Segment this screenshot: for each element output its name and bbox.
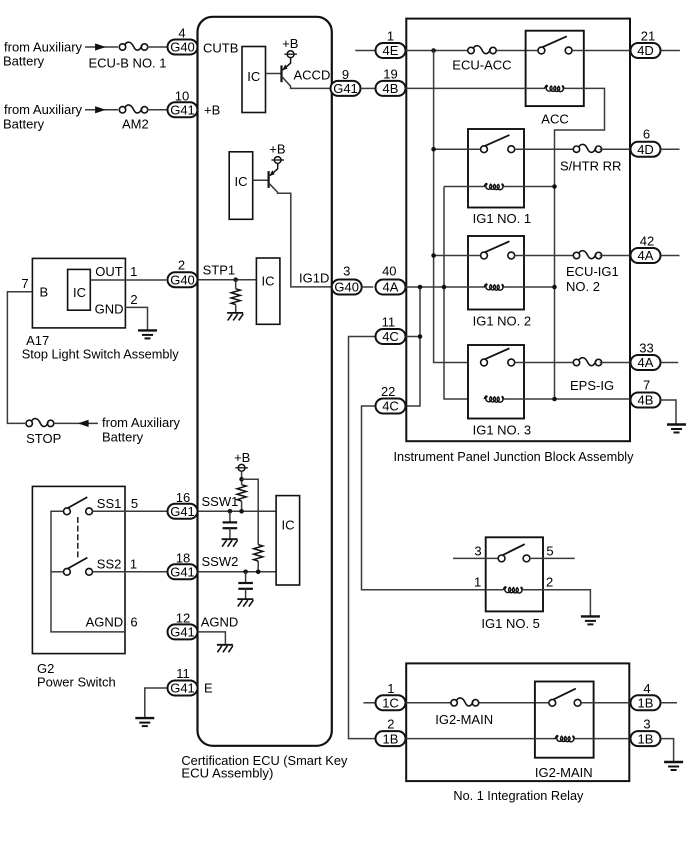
wire — [235, 280, 237, 289]
svg-text:4: 4 — [178, 26, 185, 41]
fuse ECU-IG1 NO. 2 — [573, 251, 601, 261]
svg-text:ECU-IG1: ECU-IG1 — [566, 264, 619, 279]
svg-text:NO. 2: NO. 2 — [566, 279, 600, 294]
svg-text:1B: 1B — [383, 731, 399, 746]
svg-text:2: 2 — [178, 258, 185, 273]
fuse S/HTR RR — [573, 144, 601, 154]
net from Auxiliary Battery (AM2 feed) — [3, 102, 83, 131]
arrow — [95, 43, 106, 50]
svg-text:Power Switch: Power Switch — [37, 674, 116, 689]
fuse STOP — [26, 418, 54, 428]
node — [431, 253, 436, 258]
capacitor C1 — [223, 522, 238, 528]
svg-text:4A: 4A — [638, 355, 654, 370]
node — [418, 285, 423, 290]
svg-text:IG1 NO. 1: IG1 NO. 1 — [473, 211, 532, 226]
svg-text:G41: G41 — [170, 565, 195, 580]
IC U1 — [242, 47, 266, 113]
arrow — [95, 106, 106, 113]
svg-text:ECU Assembly): ECU Assembly) — [181, 765, 273, 780]
wire ACC coil to coil bus — [555, 88, 605, 399]
node — [552, 397, 557, 402]
svg-text:10: 10 — [175, 88, 189, 103]
ground IG1 NO. 5 — [581, 616, 600, 624]
svg-text:G40: G40 — [170, 40, 195, 55]
svg-text:16: 16 — [176, 490, 190, 505]
svg-text:G40: G40 — [170, 272, 195, 287]
wire SS2 to G41 — [93, 571, 168, 573]
relay IG1 NO. 3 contact — [481, 348, 515, 366]
node — [256, 570, 261, 575]
node pull-up branch — [239, 477, 244, 482]
wire — [361, 87, 376, 89]
wire coil left — [486, 589, 504, 591]
svg-text:IG1 NO. 5: IG1 NO. 5 — [481, 616, 540, 631]
svg-text:5: 5 — [131, 496, 138, 511]
svg-text:AM2: AM2 — [122, 117, 149, 132]
wire stub pin 5 — [530, 557, 575, 559]
wire E pin to ground — [145, 688, 168, 718]
wire 1C to relay — [406, 702, 550, 704]
node — [552, 184, 557, 189]
ground GND pin — [138, 330, 157, 338]
node — [239, 509, 244, 514]
transistor Q2 — [269, 163, 278, 188]
svg-text:4D: 4D — [637, 142, 654, 157]
svg-text:4E: 4E — [383, 43, 399, 58]
svg-text:E: E — [204, 680, 213, 695]
svg-text:ACCD: ACCD — [294, 67, 331, 82]
svg-text:G41: G41 — [170, 504, 195, 519]
relay IG2-MAIN contact — [549, 689, 581, 707]
wire collector Q2 to IG1D — [269, 183, 331, 287]
wire GND — [125, 307, 147, 330]
svg-text:+B: +B — [282, 36, 298, 51]
wire — [235, 305, 237, 313]
svg-text:IG1 NO. 2: IG1 NO. 2 — [473, 313, 532, 328]
wire — [434, 148, 481, 150]
wire — [504, 186, 555, 188]
svg-text:EPS-IG: EPS-IG — [570, 378, 614, 393]
svg-text:4D: 4D — [637, 43, 654, 58]
wire 4B-19 to ACC coil — [406, 87, 546, 89]
node — [442, 285, 447, 290]
wire ACCD to G41-9 — [330, 87, 332, 89]
power +B terminal Q2 — [271, 157, 284, 164]
svg-text:AGND: AGND — [201, 615, 239, 630]
wire stub — [661, 702, 678, 704]
IC U2 — [229, 152, 253, 220]
svg-text:IG1 NO. 3: IG1 NO. 3 — [473, 423, 532, 438]
wire stub — [661, 50, 680, 52]
wire — [504, 398, 631, 400]
wire — [54, 422, 98, 424]
wire B pin 7 to STOP fuse — [7, 292, 32, 424]
svg-text:IC: IC — [262, 273, 275, 288]
relay IG2-MAIN coil — [555, 736, 575, 742]
relay IG1 NO. 1 coil — [484, 184, 504, 190]
svg-text:+B: +B — [234, 450, 250, 465]
ground (body) AGND — [217, 645, 233, 653]
wire — [581, 702, 631, 704]
svg-text:4A: 4A — [383, 280, 399, 295]
svg-text:SSW1: SSW1 — [202, 494, 239, 509]
svg-text:No. 1 Integration Relay: No. 1 Integration Relay — [453, 788, 583, 803]
wire 4B-7 to ground — [661, 400, 677, 424]
svg-text:STP1: STP1 — [203, 262, 236, 277]
capacitor C2 — [238, 583, 253, 589]
relay IG1 NO. 3 box — [468, 345, 524, 419]
svg-text:Battery: Battery — [3, 53, 45, 68]
wire SS2 stub — [51, 571, 64, 573]
power +B terminal Q1 — [284, 51, 297, 58]
svg-text:IC: IC — [282, 518, 295, 533]
svg-text:IC: IC — [73, 285, 86, 300]
svg-text:4B: 4B — [638, 393, 654, 408]
node STP1 junction — [233, 277, 238, 282]
Stop Light Switch Assembly box A17 — [32, 258, 125, 328]
transistor Q1 — [282, 58, 291, 83]
wire base Q2 — [253, 179, 269, 181]
relay IG1 NO. 2 coil — [484, 284, 504, 290]
wire STP1 — [198, 279, 256, 281]
wire SSW1 — [198, 510, 276, 512]
wire ACC contact out — [572, 50, 631, 52]
label Certification ECU — [181, 753, 347, 780]
svg-text:G41: G41 — [170, 625, 195, 640]
svg-text:ACC: ACC — [541, 111, 568, 126]
svg-text:33: 33 — [639, 341, 653, 356]
svg-text:12: 12 — [176, 610, 190, 625]
svg-text:Instrument Panel Junction Bloc: Instrument Panel Junction Block Assembly — [394, 449, 634, 464]
resistor R3 (SSW2 pull-up) — [254, 545, 263, 561]
relay IG1 NO. 1 box — [468, 129, 524, 208]
IC U4 — [276, 496, 300, 585]
svg-text:GND: GND — [95, 302, 124, 317]
svg-text:IG2-MAIN: IG2-MAIN — [435, 712, 493, 727]
svg-text:3: 3 — [474, 543, 481, 558]
wire OUT to G40 — [90, 279, 166, 281]
wire — [147, 46, 168, 48]
svg-text:1B: 1B — [638, 696, 654, 711]
wire stub pin 3 — [453, 557, 498, 559]
wire contact to fuse — [515, 255, 574, 257]
wire — [241, 501, 243, 511]
resistor R2 (SSW1 pull-up) — [237, 485, 246, 501]
svg-text:G41: G41 — [170, 103, 195, 118]
svg-text:G41: G41 — [333, 81, 358, 96]
ground (body) C2 — [237, 599, 253, 607]
svg-text:2: 2 — [546, 574, 553, 589]
switch SS2 — [64, 558, 93, 576]
ground 1B-3 — [664, 762, 683, 770]
wire bus C (4C feed) — [406, 287, 421, 406]
svg-text:4A: 4A — [638, 248, 654, 263]
wire — [434, 255, 481, 257]
net from Auxiliary Battery (ECU-B NO. 1 feed) — [3, 39, 83, 68]
svg-text:S/HTR RR: S/HTR RR — [560, 159, 621, 174]
wire — [600, 148, 631, 150]
node — [243, 570, 248, 575]
net label from Auxiliary Battery — [102, 415, 181, 444]
wire branch to R3 — [242, 479, 259, 544]
svg-text:4: 4 — [643, 681, 650, 696]
svg-text:6: 6 — [643, 127, 650, 142]
wire — [515, 362, 574, 364]
relay ACC contact — [538, 36, 572, 54]
svg-text:4C: 4C — [382, 399, 399, 414]
wire 4C-11 branch — [349, 337, 376, 739]
svg-text:1: 1 — [130, 264, 137, 279]
switch SS1 — [64, 497, 93, 515]
wire SS1 to G41 — [93, 510, 168, 512]
node — [418, 334, 423, 339]
svg-text:1: 1 — [474, 574, 481, 589]
wire — [600, 255, 631, 257]
wire stub — [661, 148, 680, 150]
svg-text:11: 11 — [382, 315, 396, 330]
wire base Q1 — [266, 73, 282, 75]
wire — [85, 109, 118, 111]
svg-text:18: 18 — [176, 550, 190, 565]
svg-text:1: 1 — [387, 681, 394, 696]
svg-text:+B: +B — [204, 102, 220, 117]
svg-text:2: 2 — [387, 717, 394, 732]
relay IG1 NO. 1 contact — [481, 135, 515, 153]
svg-text:IG2-MAIN: IG2-MAIN — [535, 765, 593, 780]
fuse EPS-IG — [573, 358, 601, 368]
ground (body) R1 — [227, 313, 243, 321]
fuse ECU-B NO. 1 — [119, 42, 147, 52]
svg-text:ECU-ACC: ECU-ACC — [452, 57, 511, 72]
wire 4E to ACC relay — [406, 50, 542, 52]
wire SSW2 — [198, 571, 276, 573]
relay IG1 NO. 5 coil — [503, 587, 523, 593]
wire IG1D coil 2 — [406, 286, 486, 288]
svg-text:Battery: Battery — [3, 116, 45, 131]
svg-text:IG1D: IG1D — [299, 271, 329, 286]
wire — [257, 561, 259, 572]
ECU box Certification ECU — [198, 17, 332, 746]
Instrument Panel Junction Block Assembly box — [406, 19, 630, 442]
relay ACC coil — [545, 85, 565, 91]
svg-text:AGND: AGND — [86, 615, 124, 630]
relay ACC box — [526, 31, 584, 106]
ground 4B-7 — [667, 425, 686, 433]
node bus A top — [431, 48, 436, 53]
svg-text:CUTB: CUTB — [203, 40, 238, 55]
wire — [406, 336, 421, 338]
wire — [245, 572, 247, 583]
svg-text:4C: 4C — [382, 329, 399, 344]
arrow (from Auxiliary Battery) — [78, 420, 89, 427]
svg-text:IC: IC — [247, 69, 260, 84]
wire bus A (switch feed) — [434, 51, 468, 363]
svg-text:1B: 1B — [638, 731, 654, 746]
IC U3 — [256, 258, 280, 324]
relay IG1 NO. 3 coil — [484, 396, 504, 402]
wire — [600, 362, 631, 364]
wire stub — [661, 255, 680, 257]
Power Switch box G2 — [32, 486, 125, 653]
svg-text:+B: +B — [269, 141, 285, 156]
fuse AM2 — [119, 105, 147, 115]
svg-text:21: 21 — [641, 29, 655, 44]
svg-text:5: 5 — [546, 543, 553, 558]
svg-text:2: 2 — [130, 292, 137, 307]
wire bus B (coil feed) — [444, 187, 468, 400]
svg-text:from Auxiliary: from Auxiliary — [4, 102, 83, 117]
wire 4C-22 branch — [362, 406, 486, 590]
ground (body) C1 — [222, 539, 238, 547]
svg-text:7: 7 — [21, 276, 28, 291]
wire collector Q1 to ACCD — [282, 77, 331, 89]
wire — [147, 109, 168, 111]
svg-text:ECU-B NO. 1: ECU-B NO. 1 — [89, 56, 167, 71]
svg-text:G40: G40 — [334, 280, 359, 295]
node — [228, 509, 233, 514]
ground E pin — [135, 718, 154, 726]
fuse IG2-MAIN — [451, 698, 479, 708]
IC U5 (stop light switch) — [68, 269, 91, 310]
svg-text:40: 40 — [382, 263, 396, 278]
svg-text:1C: 1C — [382, 696, 399, 711]
wire — [245, 589, 247, 599]
svg-text:from Auxiliary: from Auxiliary — [4, 39, 83, 54]
svg-text:4B: 4B — [383, 81, 399, 96]
relay IG1 NO. 2 box — [468, 236, 524, 310]
wire — [241, 471, 243, 485]
svg-text:G41: G41 — [170, 681, 195, 696]
svg-text:42: 42 — [640, 234, 654, 249]
relay IG1 NO. 2 contact — [481, 241, 515, 259]
power +B terminal pull-up — [235, 464, 248, 471]
svg-text:OUT: OUT — [95, 264, 123, 279]
wire pin 2 to ground — [523, 590, 591, 616]
wire — [229, 528, 231, 539]
relay IG1 NO. 5 contact — [498, 544, 530, 562]
svg-text:IC: IC — [235, 174, 248, 189]
fuse ECU-ACC — [468, 46, 496, 56]
svg-text:B: B — [40, 284, 49, 299]
node — [431, 147, 436, 152]
svg-text:3: 3 — [643, 717, 650, 732]
wire — [229, 511, 231, 522]
wire AGND to body ground — [198, 632, 225, 645]
svg-text:SS2: SS2 — [97, 556, 122, 571]
svg-text:SSW2: SSW2 — [202, 554, 239, 569]
wire coil feed — [406, 738, 557, 740]
wire — [362, 286, 374, 288]
svg-text:3: 3 — [343, 263, 350, 278]
wire — [574, 738, 631, 740]
relay IG1 NO. 5 box — [486, 537, 543, 611]
wire stub 4E — [355, 50, 375, 52]
svg-text:19: 19 — [383, 66, 397, 81]
wire switch common — [51, 511, 125, 632]
wire — [504, 286, 555, 288]
wire coil 1 — [444, 186, 485, 188]
svg-text:STOP: STOP — [26, 431, 61, 446]
No. 1 Integration Relay box — [406, 663, 629, 781]
svg-text:SS1: SS1 — [97, 496, 122, 511]
mechanical link (dashed) — [77, 517, 79, 560]
svg-text:11: 11 — [176, 666, 190, 681]
svg-text:from Auxiliary: from Auxiliary — [102, 415, 181, 430]
svg-text:7: 7 — [643, 378, 650, 393]
node — [552, 285, 557, 290]
svg-text:1: 1 — [387, 29, 394, 44]
svg-text:Stop Light Switch Assembly: Stop Light Switch Assembly — [22, 347, 179, 362]
svg-text:9: 9 — [342, 67, 349, 82]
wire stub — [661, 362, 679, 364]
wire — [85, 46, 118, 48]
svg-text:22: 22 — [381, 384, 395, 399]
relay IG2-MAIN box — [535, 682, 594, 758]
svg-text:Battery: Battery — [102, 429, 144, 444]
svg-text:1: 1 — [130, 556, 137, 571]
wire contact to fuse — [515, 148, 574, 150]
wire stub 1C — [363, 702, 375, 704]
svg-text:6: 6 — [130, 615, 137, 630]
wire 1B-3 to ground — [661, 739, 674, 762]
resistor R1 — [231, 289, 240, 305]
